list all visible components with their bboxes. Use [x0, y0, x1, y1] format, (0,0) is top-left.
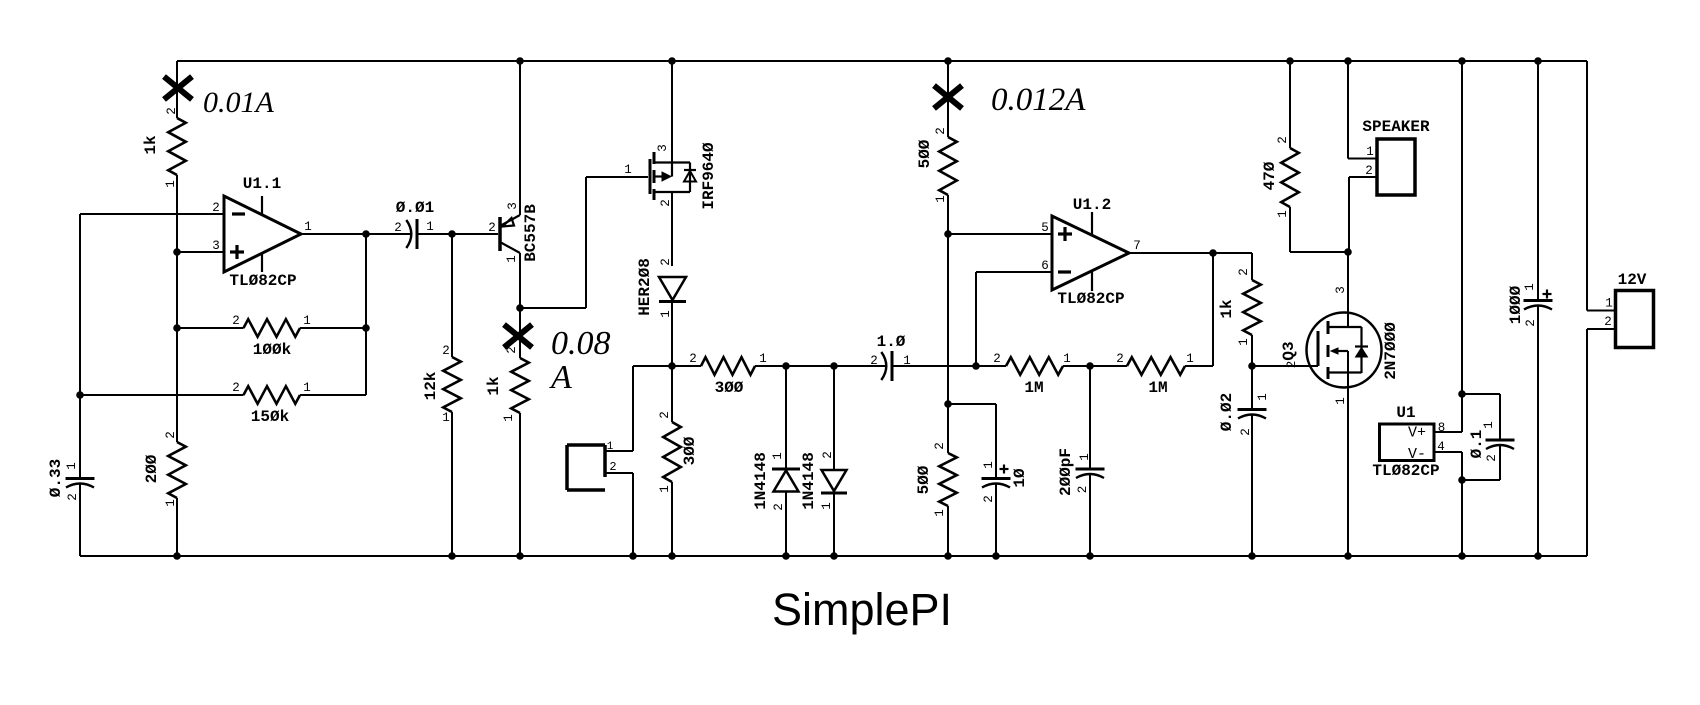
svg-text:2: 2: [870, 354, 878, 368]
svg-text:SPEAKER: SPEAKER: [1362, 118, 1430, 136]
svg-text:2: 2: [1116, 352, 1124, 366]
svg-text:1: 1: [934, 195, 948, 203]
svg-text:2: 2: [658, 411, 672, 419]
svg-text:1: 1: [1276, 210, 1290, 218]
svg-text:1k: 1k: [1218, 299, 1236, 319]
svg-text:0.01A: 0.01A: [203, 86, 275, 119]
svg-text:3: 3: [506, 202, 520, 210]
svg-text:2: 2: [1365, 164, 1373, 178]
svg-text:1M: 1M: [1148, 379, 1167, 397]
svg-text:2: 2: [66, 493, 80, 501]
svg-text:2ØØ: 2ØØ: [143, 454, 161, 483]
svg-text:1N4148: 1N4148: [752, 452, 770, 510]
svg-text:Q3: Q3: [1280, 341, 1298, 360]
svg-text:7: 7: [1133, 239, 1141, 253]
svg-text:2ØØpF: 2ØØpF: [1057, 448, 1075, 496]
svg-text:2: 2: [1285, 361, 1299, 369]
svg-text:2: 2: [821, 451, 835, 459]
svg-text:1.Ø: 1.Ø: [877, 333, 906, 351]
svg-text:1ØØk: 1ØØk: [253, 341, 292, 359]
svg-text:4: 4: [1437, 440, 1445, 454]
svg-text:1: 1: [759, 352, 767, 366]
svg-text:2: 2: [934, 127, 948, 135]
svg-text:2: 2: [609, 460, 616, 474]
svg-text:2: 2: [689, 352, 697, 366]
svg-text:1: 1: [607, 441, 614, 453]
svg-text:2: 2: [442, 344, 450, 358]
svg-text:8: 8: [1438, 421, 1446, 435]
svg-text:1: 1: [982, 461, 996, 469]
svg-text:1: 1: [1605, 297, 1613, 311]
svg-text:1: 1: [1334, 397, 1348, 405]
svg-text:2: 2: [933, 442, 947, 450]
svg-text:3: 3: [212, 239, 220, 253]
svg-text:TLØ82CP: TLØ82CP: [1057, 290, 1124, 308]
svg-text:Ø.Ø1: Ø.Ø1: [396, 199, 434, 217]
svg-text:2: 2: [232, 381, 240, 395]
svg-text:3: 3: [656, 144, 670, 152]
svg-text:2: 2: [212, 201, 220, 215]
svg-text:1: 1: [1063, 352, 1071, 366]
svg-text:V-: V-: [1408, 446, 1426, 463]
svg-text:2: 2: [232, 314, 240, 328]
svg-text:HER2Ø8: HER2Ø8: [636, 258, 654, 316]
svg-text:0.08: 0.08: [551, 325, 611, 362]
svg-text:1: 1: [164, 499, 178, 507]
svg-text:5ØØ: 5ØØ: [916, 139, 934, 168]
svg-text:TLØ82CP: TLØ82CP: [229, 272, 296, 290]
svg-text:2: 2: [1604, 315, 1612, 329]
svg-text:2: 2: [394, 221, 402, 235]
svg-text:U1.2: U1.2: [1073, 196, 1111, 214]
svg-text:TLØ82CP: TLØ82CP: [1372, 462, 1439, 480]
svg-text:Ø.Ø2: Ø.Ø2: [1218, 393, 1236, 431]
svg-text:1: 1: [303, 314, 311, 328]
svg-text:1: 1: [933, 509, 947, 517]
svg-text:1k: 1k: [485, 376, 503, 396]
svg-text:3ØØ: 3ØØ: [681, 436, 699, 465]
svg-text:1: 1: [442, 411, 450, 425]
svg-text:2: 2: [1239, 428, 1253, 436]
svg-text:1M: 1M: [1024, 379, 1043, 397]
svg-text:1: 1: [1256, 393, 1270, 401]
svg-text:1: 1: [505, 255, 519, 263]
svg-text:Ø.1: Ø.1: [1468, 430, 1486, 459]
svg-text:1: 1: [1366, 145, 1374, 159]
svg-text:6: 6: [1041, 259, 1049, 273]
svg-text:1: 1: [65, 462, 79, 470]
svg-text:0.012A: 0.012A: [991, 82, 1086, 118]
svg-text:Ø.33: Ø.33: [47, 459, 65, 497]
svg-text:5ØØ: 5ØØ: [915, 465, 933, 494]
svg-text:1Ø: 1Ø: [1011, 468, 1029, 488]
svg-text:1: 1: [426, 220, 434, 234]
svg-text:1: 1: [771, 452, 785, 460]
svg-text:1: 1: [164, 180, 178, 188]
svg-text:1: 1: [820, 502, 834, 510]
svg-text:1: 1: [1523, 283, 1537, 291]
svg-text:2: 2: [505, 346, 519, 354]
svg-text:2: 2: [982, 495, 996, 503]
svg-text:A: A: [549, 359, 572, 396]
svg-text:1: 1: [304, 220, 312, 234]
svg-text:1: 1: [502, 414, 516, 422]
svg-text:2: 2: [659, 258, 673, 266]
svg-text:2N7ØØØ: 2N7ØØØ: [1382, 322, 1400, 380]
svg-text:2: 2: [488, 221, 496, 235]
svg-text:12V: 12V: [1618, 271, 1647, 289]
svg-text:BC557B: BC557B: [522, 204, 540, 262]
svg-text:2: 2: [993, 352, 1001, 366]
svg-text:2: 2: [659, 199, 673, 207]
svg-text:2: 2: [1485, 454, 1499, 462]
svg-text:2: 2: [1076, 486, 1090, 494]
svg-text:1: 1: [659, 310, 673, 318]
svg-text:1: 1: [303, 381, 311, 395]
svg-text:2: 2: [1524, 319, 1538, 327]
svg-text:2: 2: [772, 503, 786, 511]
svg-text:2: 2: [165, 107, 179, 115]
svg-text:1: 1: [1078, 453, 1092, 461]
svg-text:12k: 12k: [422, 371, 440, 400]
svg-text:1: 1: [1186, 352, 1194, 366]
svg-text:SimplePI: SimplePI: [772, 584, 952, 635]
svg-text:2: 2: [164, 431, 178, 439]
svg-text:U1: U1: [1396, 404, 1415, 422]
svg-text:5: 5: [1041, 221, 1049, 235]
svg-text:U1.1: U1.1: [243, 175, 281, 193]
svg-text:1: 1: [658, 485, 672, 493]
svg-text:V+: V+: [1408, 425, 1426, 442]
svg-text:1N4148: 1N4148: [800, 452, 818, 510]
svg-text:47Ø: 47Ø: [1261, 161, 1279, 190]
svg-text:2: 2: [1237, 268, 1251, 276]
svg-text:3ØØ: 3ØØ: [715, 379, 744, 397]
svg-text:2: 2: [1276, 136, 1290, 144]
svg-text:3: 3: [1334, 286, 1348, 294]
svg-text:1k: 1k: [142, 135, 160, 155]
svg-text:1: 1: [1237, 338, 1251, 346]
svg-text:IRF964Ø: IRF964Ø: [700, 142, 718, 210]
svg-text:1: 1: [1482, 421, 1496, 429]
svg-text:1: 1: [624, 163, 632, 177]
svg-text:15Øk: 15Øk: [251, 408, 290, 426]
